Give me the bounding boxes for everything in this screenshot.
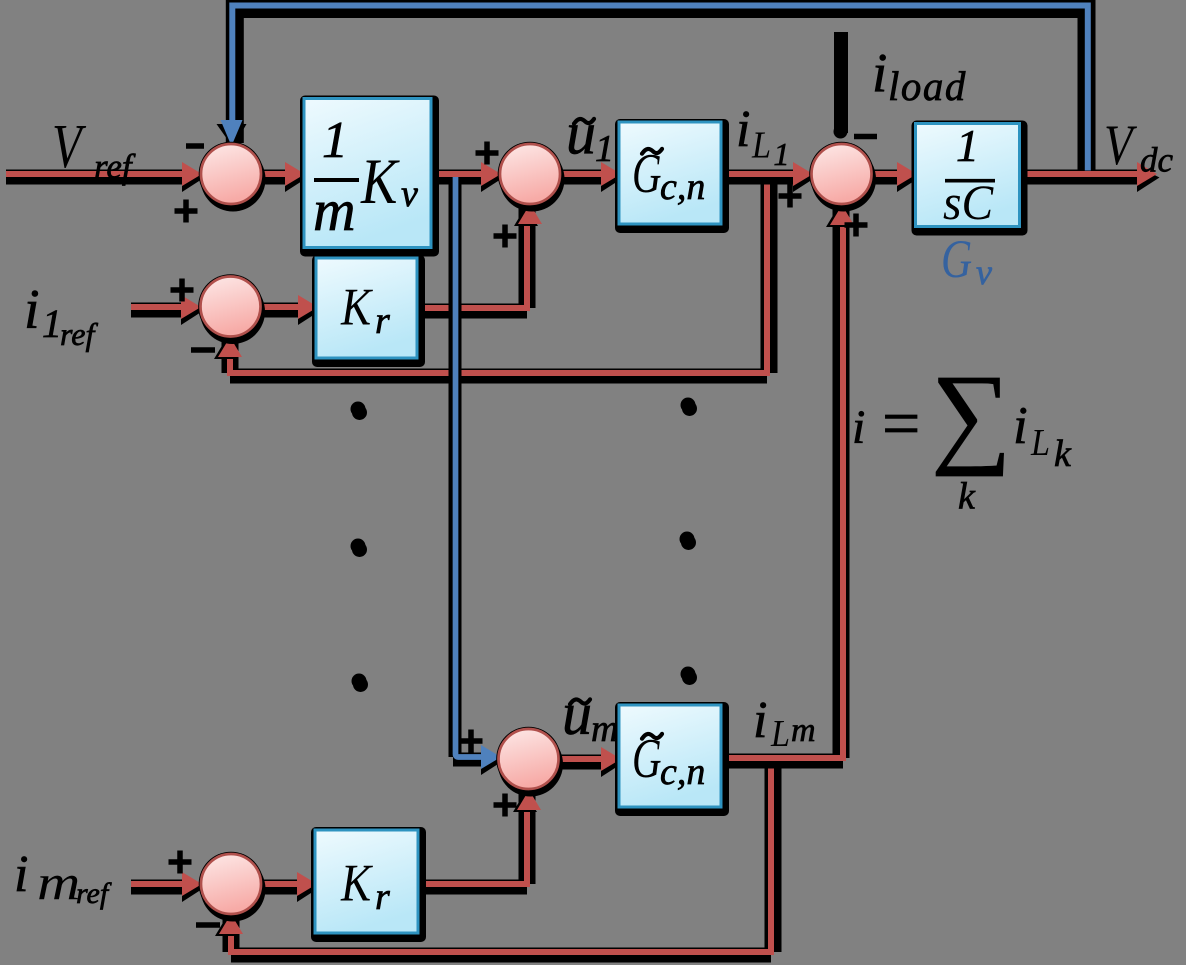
arrowhead into sum S2 bottom (minus) bbox=[214, 337, 242, 359]
label V_ref bbox=[52, 112, 136, 186]
plus sign at sum S4b left input bbox=[460, 730, 483, 753]
wire: Kr1 output elbow to sum S1b bbox=[417, 207, 527, 311]
arrowhead blue into sum S4b (plus) bbox=[481, 745, 504, 775]
svg-text:ref: ref bbox=[76, 877, 112, 910]
svg-text:i: i bbox=[736, 101, 750, 158]
wire: Kv output to sum S1b bbox=[431, 174, 484, 177]
block G2: Gc,n channel-m closed loop bbox=[615, 702, 729, 816]
minus sign at sum S2 bottom bbox=[191, 347, 215, 353]
summing junction S2 (i1 error) bbox=[198, 274, 265, 344]
plus sign at sum S3 left input bbox=[779, 185, 802, 208]
block Kv: (1/m)Kv voltage controller bbox=[300, 96, 439, 257]
svg-text:L: L bbox=[770, 712, 790, 754]
arrowhead V_dc output bbox=[1137, 162, 1160, 192]
repetition dot bbox=[351, 402, 368, 421]
arrowhead into sum S2 (plus) bbox=[181, 295, 204, 325]
plus sign at sum S2 input bbox=[171, 279, 194, 302]
repetition dot bbox=[681, 398, 698, 417]
svg-text:v: v bbox=[401, 173, 418, 215]
wire: sum S4b to G2 block (um) bbox=[559, 759, 604, 762]
arrowhead into sum S5 bottom (minus) bbox=[215, 914, 243, 936]
block Kr1: droop gain channel 1 bbox=[312, 255, 425, 367]
label u~_m bbox=[562, 681, 618, 750]
plus sign at sum S1b bottom input bbox=[494, 225, 517, 248]
svg-text:K: K bbox=[360, 146, 400, 217]
svg-text:L: L bbox=[1030, 421, 1050, 463]
svg-text:m: m bbox=[37, 855, 80, 910]
svg-text:=: = bbox=[882, 385, 920, 461]
arrowhead blue into sum S1 top (minus) bbox=[217, 120, 247, 148]
svg-text:r: r bbox=[375, 300, 390, 342]
summing junction S3 (current sum node) bbox=[809, 142, 876, 212]
arrowhead into G1 block bbox=[601, 162, 624, 192]
svg-text:ref: ref bbox=[94, 147, 136, 186]
arrowhead into sum S3 bottom (plus) bbox=[826, 205, 854, 227]
plus sign at sum S4b bottom input bbox=[494, 794, 517, 817]
wire: blue V_dc feedback loop shadow bbox=[235, 9, 1087, 170]
arrowhead into sum S5 (plus) bbox=[182, 872, 205, 902]
arrowhead into sum S1 (plus) bbox=[182, 162, 205, 192]
summing junction S5 (im error) bbox=[199, 852, 266, 922]
svg-text:1: 1 bbox=[595, 128, 614, 170]
svg-text:1: 1 bbox=[322, 112, 348, 169]
block G1: Gc,n channel-1 closed loop bbox=[615, 119, 729, 233]
label u~_1 bbox=[566, 101, 614, 171]
wire: Kv output blue drop elbow into sum S4b bbox=[453, 177, 486, 760]
equation i = sum_k i_Lk bbox=[852, 352, 1072, 518]
arrowhead into sum S1b bottom (plus) bbox=[514, 204, 542, 226]
block 1/sC text bbox=[943, 120, 995, 230]
wire: Kr2 output elbow to sum S4b bbox=[419, 793, 527, 887]
wire: sum S1b to G1 block (u1) bbox=[561, 174, 604, 177]
svg-text:v: v bbox=[976, 252, 992, 292]
plus sign at sum S5 input bbox=[169, 851, 192, 874]
block Kv text: 1/m Kv bbox=[313, 112, 418, 243]
label V_dc bbox=[1104, 115, 1174, 180]
block Kr2 text bbox=[340, 853, 390, 918]
block Kr2: droop gain channel m bbox=[311, 827, 426, 942]
svg-text:L: L bbox=[751, 124, 771, 166]
wire: sum S3 to 1/sC block bbox=[872, 174, 898, 177]
arrowhead into G2 block bbox=[601, 747, 624, 777]
plus sign at sum S1b left input bbox=[476, 142, 499, 165]
svg-text:r: r bbox=[375, 876, 390, 918]
svg-text:i: i bbox=[24, 279, 40, 341]
svg-text:k: k bbox=[958, 476, 976, 518]
wire: sum S5 to Kr2 block bbox=[262, 884, 297, 887]
repetition dot bbox=[681, 667, 698, 686]
label G_v (blue) bbox=[941, 228, 992, 292]
arrowhead into sum S4b bottom (plus) bbox=[513, 790, 541, 812]
i_load line bbox=[834, 39, 848, 139]
svg-text:load: load bbox=[888, 63, 967, 109]
arrowhead into Kv block bbox=[285, 162, 308, 192]
svg-text:K: K bbox=[340, 277, 373, 336]
svg-text:1: 1 bbox=[956, 120, 979, 171]
arrowhead into 1/sC block bbox=[897, 162, 920, 192]
label i_mref bbox=[14, 846, 112, 910]
wire: G1 output i_L1 bbox=[722, 174, 796, 177]
svg-text:c,n: c,n bbox=[660, 166, 705, 208]
svg-text:u: u bbox=[562, 681, 592, 747]
svg-text:sC: sC bbox=[943, 175, 994, 230]
plus sign at sum S3 bottom input bbox=[845, 214, 868, 237]
summing junction S4b (um) bbox=[496, 727, 563, 797]
minus sign at sum S5 bottom bbox=[196, 922, 220, 928]
wire: i_1ref input bbox=[131, 307, 184, 310]
repetition dot bbox=[680, 532, 697, 551]
svg-text:c,n: c,n bbox=[660, 751, 705, 793]
svg-text:m: m bbox=[313, 177, 356, 243]
svg-text:i: i bbox=[1013, 397, 1028, 455]
svg-text:V: V bbox=[1104, 115, 1137, 177]
wire: sum S2 to Kr1 block bbox=[262, 307, 299, 310]
arrowhead into Kr1 block bbox=[298, 295, 321, 325]
svg-text:ref: ref bbox=[60, 316, 98, 352]
arrowhead into Kr2 block bbox=[297, 872, 320, 902]
wire: blue V_dc feedback loop bbox=[232, 6, 1088, 171]
summing junction S1b (u1) bbox=[498, 142, 565, 212]
minus sign at sum S1 top bbox=[186, 143, 204, 149]
wire: G2 output i_Lm riser to sum S3 bbox=[725, 209, 843, 761]
svg-text:dc: dc bbox=[1140, 141, 1174, 180]
minus sign at sum S3 top (i_load) bbox=[854, 134, 877, 140]
arrowhead into sum S3 (plus) bbox=[793, 162, 816, 192]
wire: i_L1 feedback elbow bbox=[230, 174, 769, 376]
svg-text:K: K bbox=[340, 853, 373, 912]
label i_L1 bbox=[736, 101, 790, 172]
svg-text:1: 1 bbox=[42, 301, 62, 346]
svg-text:i: i bbox=[872, 42, 887, 103]
block G2 text: G~_c,n bbox=[632, 727, 705, 793]
svg-text:m: m bbox=[591, 708, 618, 750]
svg-text:m: m bbox=[791, 712, 816, 749]
block Gp: 1/sC bus capacitor bbox=[912, 121, 1028, 236]
label i_Lm bbox=[753, 692, 816, 754]
wire: i_Lm feedback elbow bbox=[231, 758, 773, 955]
wire: i_mref input bbox=[131, 884, 185, 887]
svg-text:i: i bbox=[14, 846, 28, 903]
block Kr1 text bbox=[340, 277, 390, 342]
repetition dot bbox=[351, 539, 368, 558]
wire: V_dc output bbox=[1019, 174, 1140, 177]
label i_1ref bbox=[24, 279, 98, 352]
repetition dot bbox=[352, 674, 369, 693]
wire: V_ref input bbox=[6, 174, 186, 177]
wire: sum S1 to Kv block bbox=[262, 174, 290, 177]
svg-text:∑: ∑ bbox=[931, 352, 1012, 477]
svg-text:k: k bbox=[1054, 433, 1072, 475]
label i_load bbox=[872, 42, 967, 109]
svg-text:i: i bbox=[852, 401, 865, 454]
svg-text:G: G bbox=[941, 228, 972, 289]
svg-text:i: i bbox=[753, 692, 767, 749]
svg-text:u: u bbox=[566, 101, 596, 167]
block G1 text: G~_c,n bbox=[632, 142, 705, 208]
plus sign at sum S1 input bbox=[175, 200, 198, 223]
summing junction S1 (voltage error) bbox=[199, 142, 266, 212]
arrowhead into sum S1b (plus) bbox=[481, 162, 504, 192]
svg-text:1: 1 bbox=[774, 136, 790, 172]
